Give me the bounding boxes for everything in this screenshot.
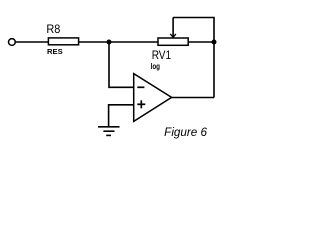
resistor R8 [48,38,78,45]
wire op-amp output [171,97,214,99]
wire inverting input from node A [109,42,134,87]
wire node A to RV1 [109,41,158,43]
wire RV1 to node B [188,41,214,43]
op-amp U1 [134,74,172,122]
potentiometer RV1 wiper arrow [170,18,176,38]
op-amp plus pin mark [137,100,145,108]
potentiometer RV1 body [158,38,188,45]
svg-text:log: log [151,62,161,71]
ground [98,127,120,136]
wire terminal to R8 [16,41,49,43]
svg-text:RES: RES [47,47,63,56]
wire non-inverting input to ground [109,105,134,127]
junction node B [212,40,217,45]
wire feedback top: wiper to node B [173,18,214,43]
input terminal [9,39,16,46]
wire node B down to output [213,42,215,98]
svg-text:RV1: RV1 [152,48,172,62]
op-amp minus pin mark [137,86,144,88]
svg-text:R8: R8 [46,22,60,36]
junction node A [107,40,112,45]
svg-text:Figure 6: Figure 6 [164,127,207,139]
wire R8 to node A [79,41,109,43]
